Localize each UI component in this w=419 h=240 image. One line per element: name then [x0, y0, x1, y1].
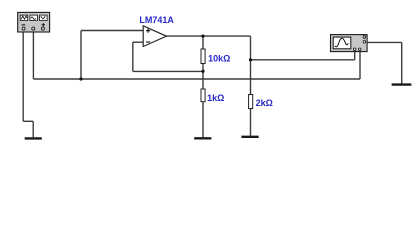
- wire: [166, 35, 250, 37]
- wire: [133, 41, 144, 43]
- wire: [401, 42, 403, 83]
- node junction feedback: [201, 70, 204, 73]
- wire: [32, 30, 34, 79]
- wire: [250, 36, 252, 60]
- svg-text:10kΩ: 10kΩ: [208, 53, 230, 63]
- oscilloscope instrument: [331, 35, 368, 52]
- wire: [81, 30, 144, 32]
- wire: [202, 36, 204, 49]
- node junction scope A: [249, 58, 252, 61]
- ground (1k resistor): [194, 137, 211, 139]
- resistor 1kΩ: [201, 89, 205, 102]
- wire: [250, 60, 252, 95]
- ground (function generator): [25, 137, 42, 139]
- wire: [202, 64, 204, 90]
- wire: [132, 42, 134, 71]
- svg-text:1kΩ: 1kΩ: [207, 93, 224, 103]
- wire: [133, 70, 203, 72]
- svg-text:2kΩ: 2kΩ: [256, 98, 273, 108]
- node junction on bus: [79, 77, 82, 80]
- op-amp U1 LM741A: [143, 26, 166, 47]
- wire: [80, 31, 82, 80]
- ground (oscilloscope): [392, 83, 412, 85]
- wire: [354, 52, 356, 60]
- resistor 2kΩ: [249, 95, 253, 109]
- resistor 10kΩ: [201, 49, 205, 64]
- wire: [22, 30, 24, 121]
- svg-text:LM741A: LM741A: [139, 15, 174, 25]
- wire: [33, 78, 360, 80]
- wire: [32, 121, 34, 137]
- wire: [359, 52, 361, 79]
- function generator instrument: [18, 12, 50, 32]
- wire: [250, 109, 252, 136]
- wire: [367, 41, 402, 43]
- node junction output: [201, 35, 204, 38]
- wire: [202, 102, 204, 138]
- ground (2k resistor): [241, 136, 258, 138]
- wire: [23, 120, 33, 122]
- wire: [251, 59, 355, 61]
